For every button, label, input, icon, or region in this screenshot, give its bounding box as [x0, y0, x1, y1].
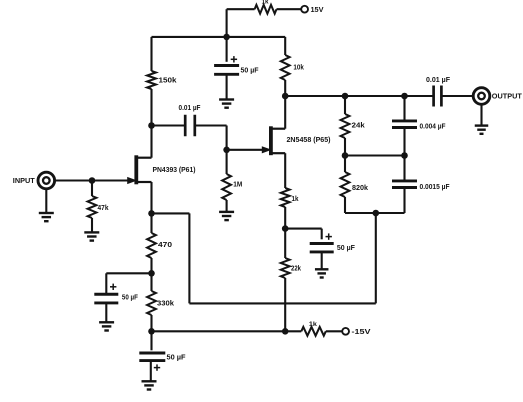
svg-text:0.01 µF: 0.01 µF	[426, 77, 451, 84]
svg-text:1k: 1k	[309, 321, 317, 328]
svg-text:10k: 10k	[293, 63, 304, 72]
svg-text:470: 470	[158, 240, 172, 249]
svg-text:50 µF: 50 µF	[122, 293, 138, 302]
svg-text:2N5458 (P65): 2N5458 (P65)	[287, 135, 332, 144]
svg-text:OUTPUT: OUTPUT	[492, 92, 522, 101]
svg-text:50 µF: 50 µF	[167, 352, 186, 361]
svg-text:820k: 820k	[352, 183, 369, 192]
svg-text:-15V: -15V	[352, 327, 371, 336]
svg-text:47k: 47k	[98, 203, 110, 212]
svg-text:150k: 150k	[159, 75, 178, 84]
svg-text:0.0015 µF: 0.0015 µF	[420, 184, 451, 191]
svg-text:INPUT: INPUT	[13, 176, 35, 185]
svg-text:PN4393 (P61): PN4393 (P61)	[153, 165, 196, 174]
svg-text:1k: 1k	[262, 0, 269, 6]
svg-text:1M: 1M	[233, 179, 242, 188]
svg-text:0.004 µF: 0.004 µF	[420, 123, 447, 130]
svg-text:0.01 µF: 0.01 µF	[179, 105, 202, 112]
svg-text:50 µF: 50 µF	[241, 65, 259, 74]
svg-text:50 µF: 50 µF	[337, 243, 355, 252]
svg-text:1k: 1k	[292, 194, 300, 203]
svg-text:15V: 15V	[311, 5, 324, 14]
svg-text:22k: 22k	[291, 263, 302, 272]
svg-text:330k: 330k	[157, 299, 175, 308]
svg-text:24k: 24k	[352, 120, 366, 129]
